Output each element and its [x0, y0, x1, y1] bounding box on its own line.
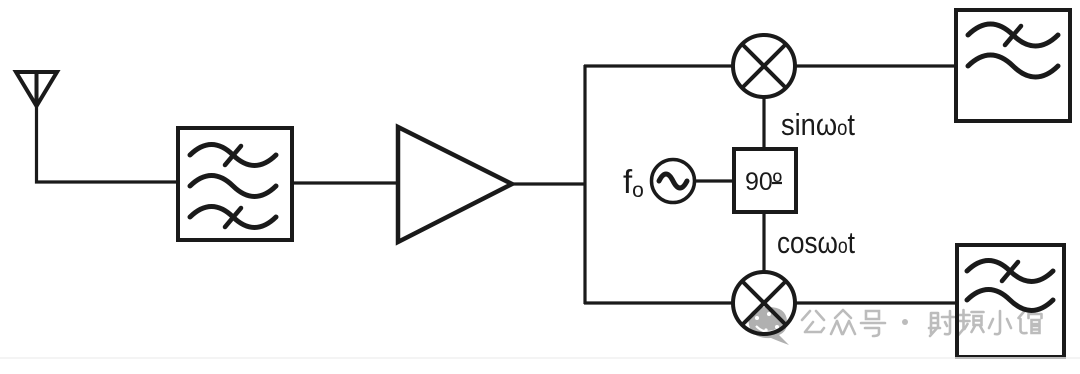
wire mixer M2 to filter FL3 — [795, 301, 958, 304]
wire mixer M1 to phase shifter — [762, 97, 765, 150]
low-pass filter FL3 — [957, 245, 1064, 357]
local oscillator OSC1 — [652, 160, 695, 203]
svg-text:fo: fo — [623, 163, 644, 202]
wire bottom branch to mixer M2 — [584, 301, 735, 304]
char gong — [802, 311, 824, 332]
char hao — [861, 311, 885, 336]
svg-text:sinωot: sinωot — [781, 107, 855, 142]
char she — [929, 311, 954, 336]
separator dot — [902, 319, 908, 325]
watermark logo — [749, 307, 789, 345]
char xiao — [989, 311, 1011, 334]
watermark text gongzhonghao — [802, 310, 1042, 336]
antenna ANT1 — [16, 72, 57, 106]
mixer M2 — [733, 272, 795, 334]
wire splitter vertical bus — [583, 65, 586, 304]
wire oscillator to phase shifter — [694, 179, 734, 182]
band-pass filter FL1 — [178, 128, 292, 240]
char zhong — [831, 310, 855, 334]
wire mixer M1 to filter FL2 — [795, 64, 957, 67]
90 degree phase shifter U1 — [734, 149, 796, 212]
wire antenna feed — [37, 104, 179, 182]
wire phase shifter to mixer M2 — [762, 212, 765, 273]
wire FL1 to amplifier — [292, 181, 398, 184]
char pin — [958, 310, 984, 336]
wire amplifier to splitter bus — [512, 182, 586, 185]
low-pass filter FL2 — [956, 10, 1070, 121]
amplifier A1 — [398, 127, 512, 242]
svg-text:cosωot: cosωot — [777, 225, 855, 260]
faint bottom rule — [0, 357, 1080, 359]
char guan — [1019, 310, 1042, 333]
wire top branch to mixer M1 — [584, 64, 735, 67]
mixer M1 — [733, 35, 795, 97]
